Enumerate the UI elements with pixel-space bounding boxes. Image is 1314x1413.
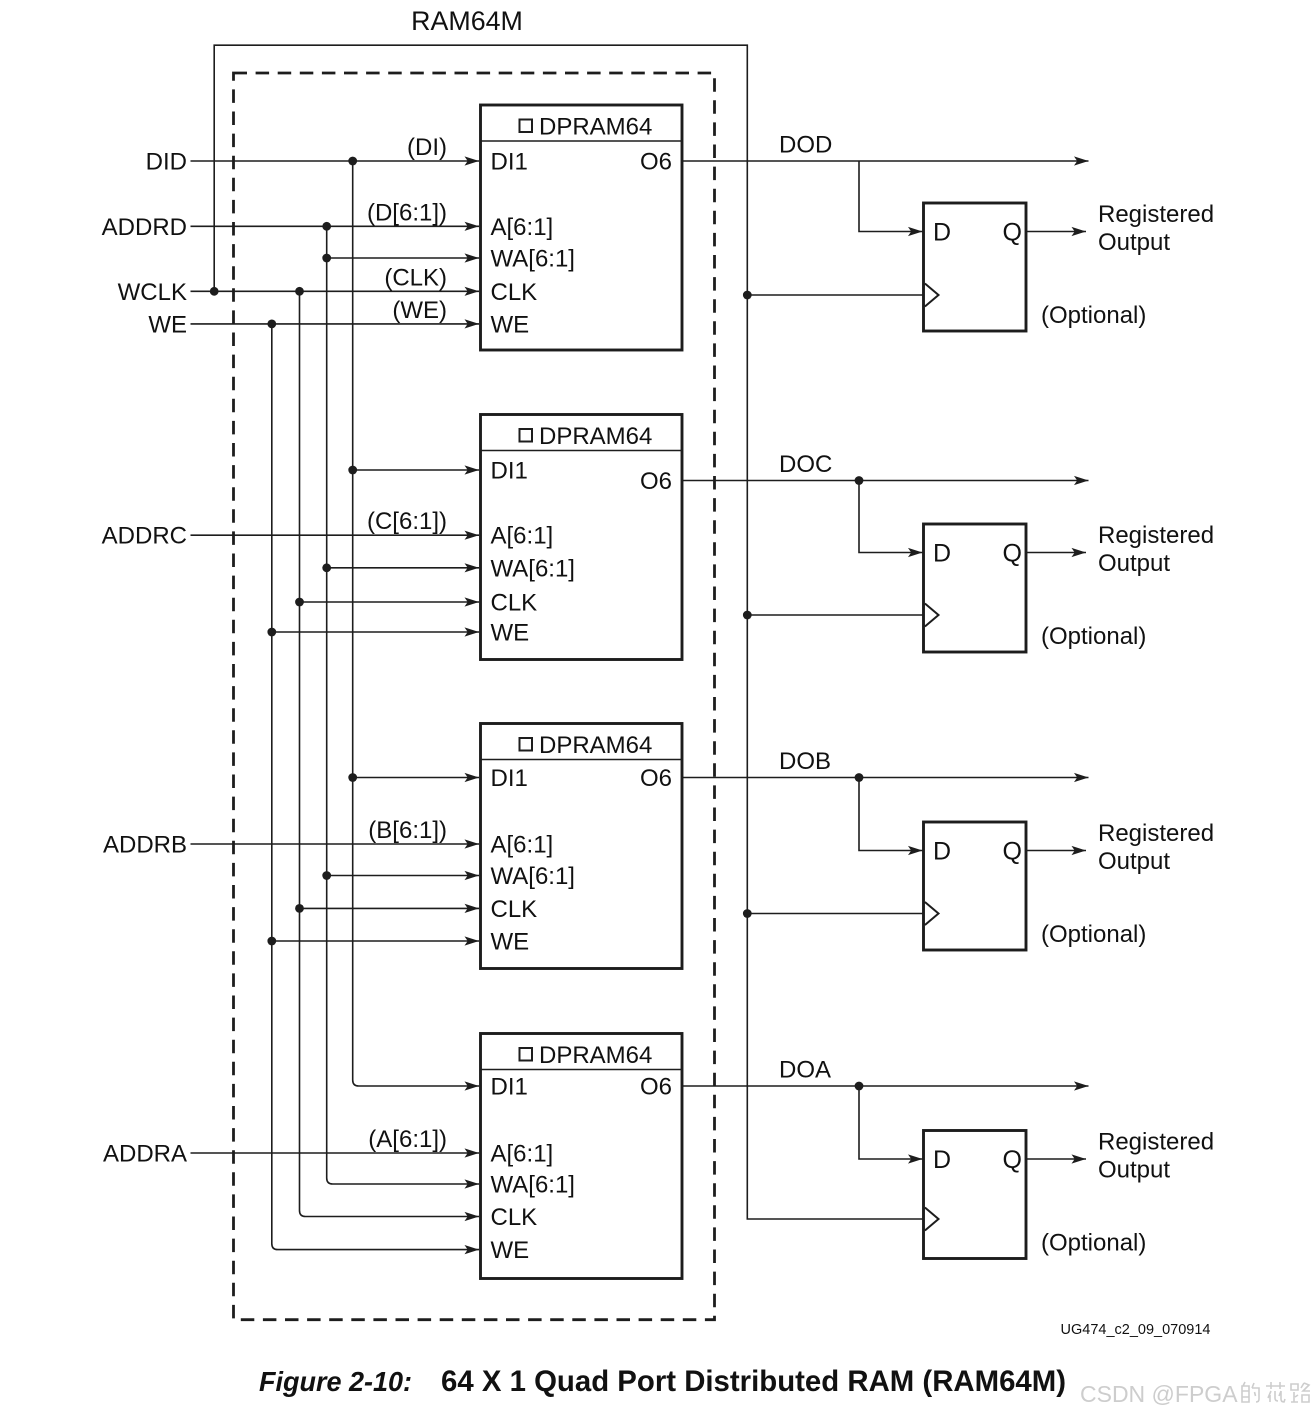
junction WE/WE vertical xyxy=(267,320,276,329)
svg-text:ADDRB: ADDRB xyxy=(103,832,187,859)
svg-text:DID: DID xyxy=(146,149,187,176)
svg-text:DI1: DI1 xyxy=(491,765,528,792)
svg-text:WE: WE xyxy=(148,311,187,338)
svg-text:(WE): (WE) xyxy=(392,297,447,324)
wire ADDRB input xyxy=(191,843,480,845)
svg-text:ADDRC: ADDRC xyxy=(102,523,187,550)
svg-text:WA[6:1]: WA[6:1] xyxy=(491,555,575,582)
flip-flop register FF3 xyxy=(924,822,1027,950)
svg-text:CSDN @FPGA: CSDN @FPGA xyxy=(1080,1381,1238,1407)
junction DOA branch xyxy=(855,1082,864,1091)
flip-flop register FF1 xyxy=(924,203,1027,331)
svg-text:(D[6:1]): (D[6:1]) xyxy=(367,199,447,226)
wire Q output FF1 xyxy=(1026,231,1086,233)
svg-text:WE: WE xyxy=(491,929,530,956)
svg-text:O6: O6 xyxy=(640,1074,672,1101)
RAM64M dashed boundary box xyxy=(234,73,715,1320)
DPRAM64 #2 header symbol square xyxy=(520,429,533,442)
svg-text:Q: Q xyxy=(1003,219,1022,247)
wire WE input xyxy=(191,323,480,325)
svg-text:WA[6:1]: WA[6:1] xyxy=(491,246,575,273)
svg-text:WA[6:1]: WA[6:1] xyxy=(491,863,575,890)
junction WE stub #3 xyxy=(267,937,276,946)
svg-text:DPRAM64: DPRAM64 xyxy=(539,1042,652,1069)
svg-text:(C[6:1]): (C[6:1]) xyxy=(367,508,447,535)
svg-text:DPRAM64: DPRAM64 xyxy=(539,113,652,140)
wire DOD output xyxy=(682,160,1089,162)
svg-text:(CLK): (CLK) xyxy=(384,264,447,291)
svg-text:RAM64M: RAM64M xyxy=(411,6,523,36)
wire ADDRA input xyxy=(191,1152,480,1154)
wire DI stub to DPRAM64 #3 xyxy=(353,777,479,779)
junction WA stub #3 xyxy=(322,871,331,880)
DPRAM64 #3 header separator xyxy=(481,759,683,761)
junction clock branch DOB xyxy=(743,909,752,918)
clock triangle FF1 xyxy=(925,284,939,307)
wire CLK stub to DPRAM64 #2 xyxy=(300,601,480,603)
wire WE stub to DPRAM64 #2 xyxy=(272,631,479,633)
svg-text:Output: Output xyxy=(1098,1157,1170,1184)
wire WCLK routing: up left side, across top, down right side to register clocks xyxy=(214,45,924,1219)
junction clock branch DOC xyxy=(743,611,752,620)
svg-text:A[6:1]: A[6:1] xyxy=(491,832,554,859)
svg-text:CLK: CLK xyxy=(491,590,538,617)
DPRAM64 #2 header separator xyxy=(481,450,683,452)
junction DI stub #3 xyxy=(348,773,357,782)
junction clock branch DOD xyxy=(743,291,752,300)
flip-flop register FF2 xyxy=(924,524,1027,652)
svg-text:O6: O6 xyxy=(640,765,672,792)
DPRAM64 block #1 xyxy=(481,105,683,350)
junction CLK stub #3 xyxy=(295,904,304,913)
wire clock stub to DOC register xyxy=(747,614,924,616)
svg-text:DOA: DOA xyxy=(779,1057,831,1084)
svg-text:Q: Q xyxy=(1003,838,1022,866)
svg-text:ADDRD: ADDRD xyxy=(102,214,187,241)
svg-text:DOB: DOB xyxy=(779,748,831,775)
svg-text:CLK: CLK xyxy=(491,1204,538,1231)
junction DOC branch xyxy=(855,476,864,485)
svg-text:O6: O6 xyxy=(640,149,672,176)
svg-text:(Optional): (Optional) xyxy=(1041,302,1146,329)
svg-text:DOC: DOC xyxy=(779,451,832,478)
wire DOC output xyxy=(682,480,1089,482)
svg-text:O6: O6 xyxy=(640,468,672,495)
flip-flop register FF4 xyxy=(924,1131,1027,1259)
wire DOA branch to register D xyxy=(859,1086,925,1159)
wire CLK stub to DPRAM64 #3 xyxy=(300,907,480,909)
DPRAM64 #1 header symbol square xyxy=(520,120,533,133)
wire ADDRD input xyxy=(191,225,480,227)
junction WE stub #2 xyxy=(267,628,276,637)
wire DOB branch to register D xyxy=(859,778,925,851)
junction DOB branch xyxy=(855,773,864,782)
wire DOD branch to register D xyxy=(859,161,925,232)
wire WE stub to DPRAM64 #3 xyxy=(272,940,479,942)
svg-text:(Optional): (Optional) xyxy=(1041,623,1146,650)
junction CLK stub #2 xyxy=(295,598,304,607)
svg-text:CLK: CLK xyxy=(491,279,538,306)
svg-text:D: D xyxy=(933,1146,951,1174)
DPRAM64 block #3 xyxy=(481,724,683,969)
clock triangle FF4 xyxy=(925,1208,939,1231)
wire Q output FF2 xyxy=(1026,552,1086,554)
svg-text:Output: Output xyxy=(1098,229,1170,256)
svg-text:DI1: DI1 xyxy=(491,1074,528,1101)
svg-text:Output: Output xyxy=(1098,550,1170,577)
wire DI (from DID) vertical distribution xyxy=(353,161,479,1086)
svg-text:ADDRA: ADDRA xyxy=(103,1141,187,1168)
svg-text:WE: WE xyxy=(491,1237,530,1264)
junction WCLK/CLK vertical xyxy=(295,287,304,296)
wire WE (from WE) vertical distribution xyxy=(272,324,479,1250)
wire WA (from ADDRD) vertical distribution xyxy=(327,226,479,1184)
svg-text:DI1: DI1 xyxy=(491,149,528,176)
svg-text:Q: Q xyxy=(1003,1146,1022,1174)
DPRAM64 #4 header separator xyxy=(481,1069,683,1071)
DPRAM64 #4 header symbol square xyxy=(520,1048,533,1061)
wire clock stub to DOD register xyxy=(747,294,924,296)
svg-text:(B[6:1]): (B[6:1]) xyxy=(368,817,447,844)
svg-text:A[6:1]: A[6:1] xyxy=(491,1141,554,1168)
wire WCLK input xyxy=(191,290,480,292)
svg-text:UG474_c2_09_070914: UG474_c2_09_070914 xyxy=(1061,1322,1211,1338)
svg-text:Registered: Registered xyxy=(1098,1129,1214,1156)
DPRAM64 block #2 xyxy=(481,415,683,660)
svg-text:D: D xyxy=(933,838,951,866)
junction ADDRD/WA vertical xyxy=(322,222,331,231)
svg-text:D: D xyxy=(933,540,951,568)
svg-text:WCLK: WCLK xyxy=(118,279,187,306)
svg-text:WA[6:1]: WA[6:1] xyxy=(491,1172,575,1199)
junction DI stub #2 xyxy=(348,466,357,475)
svg-text:Registered: Registered xyxy=(1098,201,1214,228)
svg-text:DOD: DOD xyxy=(779,132,832,159)
svg-text:D: D xyxy=(933,219,951,247)
wire WA stub to DPRAM64 #3 xyxy=(327,875,479,877)
svg-text:DPRAM64: DPRAM64 xyxy=(539,423,652,450)
wire WA stub to DPRAM64 #1 xyxy=(327,257,479,259)
svg-text:64 X 1 Quad Port Distributed R: 64 X 1 Quad Port Distributed RAM (RAM64M… xyxy=(441,1365,1066,1398)
DPRAM64 #1 header separator xyxy=(481,140,683,142)
svg-text:Registered: Registered xyxy=(1098,820,1214,847)
wire DI stub to DPRAM64 #2 xyxy=(353,469,479,471)
svg-text:A[6:1]: A[6:1] xyxy=(491,523,554,550)
svg-text:DI1: DI1 xyxy=(491,458,528,485)
wire Q output FF3 xyxy=(1026,850,1086,852)
junction WA stub #2 xyxy=(322,563,331,572)
svg-text:Registered: Registered xyxy=(1098,522,1214,549)
wire DOA output xyxy=(682,1085,1089,1087)
wire DID input xyxy=(191,160,480,162)
DPRAM64 #3 header symbol square xyxy=(520,738,533,751)
svg-text:Q: Q xyxy=(1003,540,1022,568)
svg-text:DPRAM64: DPRAM64 xyxy=(539,732,652,759)
wire CLK (from WCLK) vertical distribution xyxy=(300,291,480,1216)
wire clock stub to DOB register xyxy=(747,913,924,915)
DPRAM64 block #4 xyxy=(481,1034,683,1279)
svg-text:WE: WE xyxy=(491,620,530,647)
wire ADDRC input xyxy=(191,534,480,536)
junction WA stub #1 xyxy=(322,254,331,263)
svg-text:WE: WE xyxy=(491,311,530,338)
wire DOB output xyxy=(682,777,1089,779)
wire Q output FF4 xyxy=(1026,1158,1086,1160)
clock triangle FF2 xyxy=(925,604,939,627)
svg-text:A[6:1]: A[6:1] xyxy=(491,214,554,241)
svg-text:Figure 2-10:: Figure 2-10: xyxy=(259,1366,412,1397)
clock triangle FF3 xyxy=(925,902,939,925)
svg-text:(Optional): (Optional) xyxy=(1041,921,1146,948)
junction DID/DI vertical xyxy=(348,157,357,166)
svg-text:(DI): (DI) xyxy=(407,134,447,161)
svg-text:(A[6:1]): (A[6:1]) xyxy=(368,1126,447,1153)
wire WA stub to DPRAM64 #2 xyxy=(327,567,479,569)
wire DOC branch to register D xyxy=(859,481,925,553)
svg-text:CLK: CLK xyxy=(491,896,538,923)
svg-text:(Optional): (Optional) xyxy=(1041,1230,1146,1257)
junction WCLK wire at outer route xyxy=(210,287,219,296)
svg-text:Output: Output xyxy=(1098,848,1170,875)
